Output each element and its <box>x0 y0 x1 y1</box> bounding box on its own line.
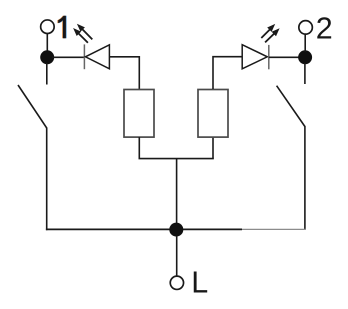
bottom bus left segment <box>46 228 242 230</box>
bottom bus right segment <box>242 228 306 230</box>
wire LED2 cathode to node2 <box>269 56 300 58</box>
wire R1 bottom lead <box>138 137 140 159</box>
LED D1 triangle <box>85 45 109 69</box>
node dot 2 <box>298 50 312 64</box>
wire junction to terminal L <box>176 236 178 276</box>
wire R2 top to LED2 anode <box>213 57 242 89</box>
terminal L circle <box>170 276 183 289</box>
resistor R2 <box>198 90 228 138</box>
node dot 1 <box>40 50 54 64</box>
switch S1 blade <box>18 85 47 128</box>
wire LED1 anode to resistor R1 top <box>109 57 139 89</box>
LED D2 cathode bar <box>268 45 270 69</box>
junction dot <box>169 223 183 237</box>
LED D2 light arrow b <box>265 28 280 42</box>
LED D2 triangle <box>242 45 267 69</box>
LED D1 light arrow a <box>77 24 92 40</box>
svg-text:2: 2 <box>316 11 333 45</box>
wire terminal2 to node2 <box>304 35 306 52</box>
LED D2 light arrow a <box>261 24 275 38</box>
svg-text:L: L <box>191 265 208 299</box>
wire node1 to LED1 cathode <box>52 56 85 58</box>
switch S1 stub <box>46 63 48 85</box>
wire terminal1 to node1 <box>46 34 48 52</box>
wire resistor join bus <box>139 158 214 160</box>
wire S1 to bus <box>46 128 48 231</box>
switch S2 stub <box>304 63 306 84</box>
LED D1 light arrow b <box>73 28 88 43</box>
switch S2 blade <box>277 86 305 127</box>
terminal 2 circle <box>299 21 313 35</box>
label 1 <box>57 16 66 39</box>
terminal 1 circle <box>41 20 55 34</box>
wire center tap to junction <box>176 159 178 224</box>
LED D1 cathode bar <box>83 44 85 69</box>
resistor R1 <box>124 90 154 138</box>
wire S2 to bus <box>304 126 306 230</box>
wire R2 bottom lead <box>212 137 214 159</box>
